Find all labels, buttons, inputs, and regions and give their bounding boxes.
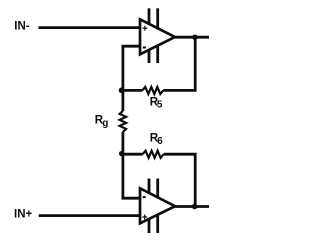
svg-text:IN-: IN-: [14, 20, 29, 32]
wire U2 output: [172, 205, 209, 208]
label Rg: [95, 115, 109, 130]
wire R5 left: [123, 89, 142, 92]
label R6: [150, 133, 163, 147]
op-amp U1: [140, 19, 175, 54]
op-amp U2: [140, 188, 175, 223]
resistor Rg: [120, 111, 127, 132]
svg-text:IN+: IN+: [14, 209, 33, 221]
svg-text:5: 5: [157, 100, 163, 111]
wire U1 output: [172, 36, 209, 39]
op-amp U1 supply pins: [149, 8, 158, 63]
op-amp U2 supply pins: [149, 179, 158, 234]
wire U1 inverting input to left bus: [123, 46, 140, 111]
wire IN- to U1 non-inverting input: [39, 26, 141, 29]
wire R6 left: [123, 153, 143, 156]
junction node at Rg bottom / R6: [119, 151, 125, 157]
junction node at Rg top / R5: [119, 88, 125, 94]
wire R5 right to U1 output node: [163, 37, 195, 90]
resistor R6: [143, 151, 164, 158]
junction node U2 output: [192, 204, 198, 210]
label R5: [150, 96, 163, 110]
wire IN+ to U2 non-inverting input: [39, 214, 140, 217]
resistor R5: [142, 87, 163, 94]
svg-text:6: 6: [157, 136, 163, 147]
junction node U1 output: [192, 34, 198, 40]
svg-text:g: g: [102, 118, 108, 129]
wire left bus to U2 inverting input: [123, 132, 140, 198]
wire R6 right to U2 output node: [164, 154, 196, 206]
